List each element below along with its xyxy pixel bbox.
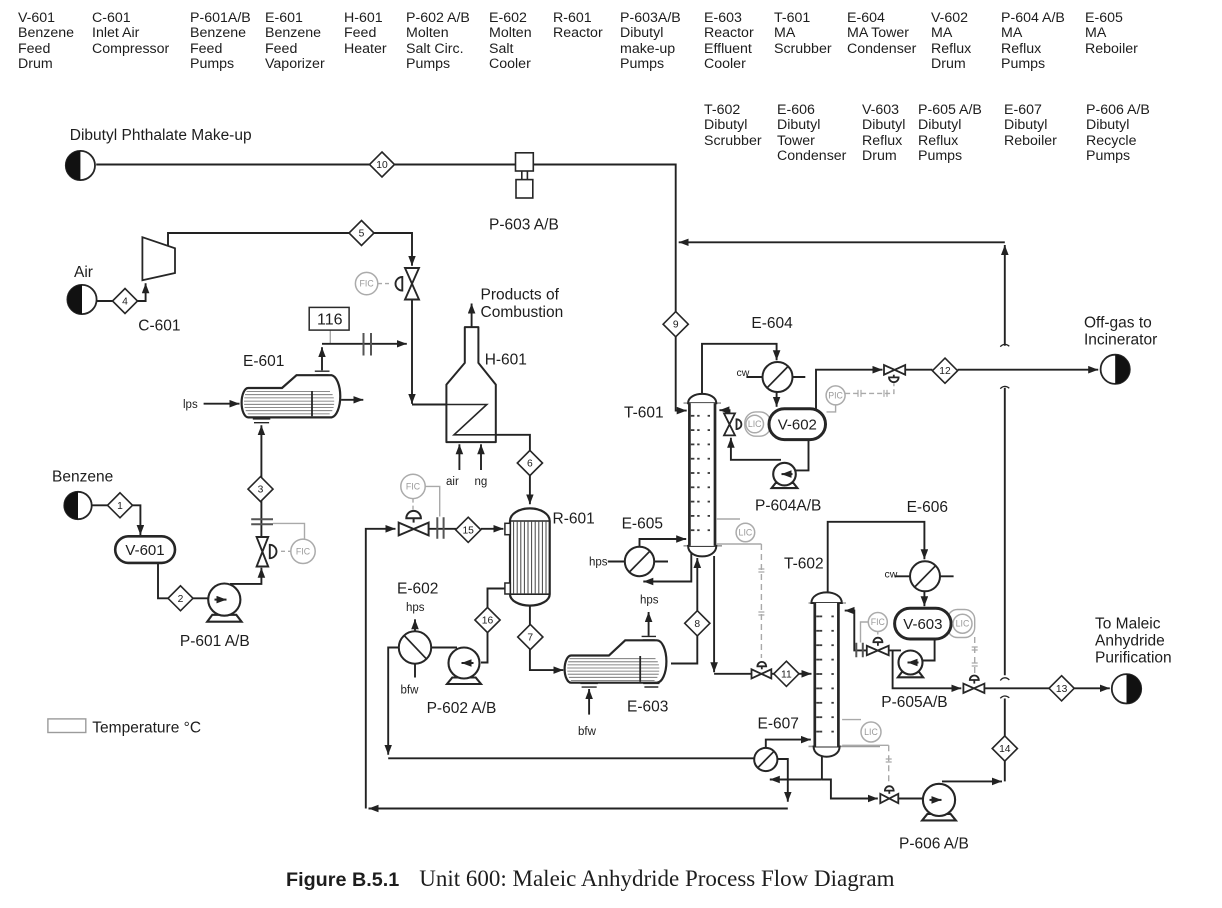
- svg-text:11: 11: [781, 669, 792, 680]
- svg-text:FIC: FIC: [406, 481, 421, 491]
- svg-text:LIC: LIC: [739, 528, 753, 538]
- svg-text:Temperature °C: Temperature °C: [92, 720, 201, 737]
- svg-text:116: 116: [317, 312, 343, 329]
- svg-text:LIC: LIC: [864, 727, 878, 737]
- svg-text:12: 12: [939, 366, 951, 377]
- svg-text:To Maleic: To Maleic: [1095, 616, 1161, 633]
- svg-text:P-601 A/B: P-601 A/B: [180, 633, 250, 650]
- svg-text:R-601: R-601: [553, 511, 595, 528]
- svg-text:E-606: E-606: [907, 499, 948, 516]
- svg-text:P-602 A/B: P-602 A/B: [427, 700, 497, 717]
- svg-text:7: 7: [527, 633, 533, 644]
- svg-text:P-606 A/B: P-606 A/B: [899, 836, 969, 853]
- svg-text:6: 6: [527, 459, 533, 470]
- svg-text:cw: cw: [737, 367, 750, 379]
- svg-text:lps: lps: [183, 399, 198, 411]
- svg-text:PIC: PIC: [828, 390, 843, 400]
- svg-text:8: 8: [694, 619, 700, 630]
- svg-text:10: 10: [376, 160, 388, 171]
- svg-text:ng: ng: [475, 476, 488, 488]
- svg-text:4: 4: [122, 297, 128, 308]
- svg-text:P-605A/B: P-605A/B: [881, 694, 947, 711]
- svg-text:LIC: LIC: [956, 619, 970, 629]
- svg-text:P-604A/B: P-604A/B: [755, 498, 821, 515]
- svg-text:T-601: T-601: [624, 405, 664, 422]
- svg-text:Purification: Purification: [1095, 650, 1172, 667]
- svg-text:hps: hps: [406, 602, 425, 614]
- svg-text:Combustion: Combustion: [481, 304, 564, 321]
- svg-text:C-601: C-601: [138, 318, 180, 335]
- svg-text:E-605: E-605: [622, 516, 663, 533]
- svg-text:FIC: FIC: [360, 279, 375, 289]
- svg-text:5: 5: [359, 229, 365, 240]
- svg-text:FIC: FIC: [871, 617, 886, 627]
- svg-text:V-603: V-603: [903, 616, 942, 633]
- svg-text:E-603: E-603: [627, 699, 668, 716]
- svg-text:E-602: E-602: [397, 581, 438, 598]
- svg-text:T-602: T-602: [784, 556, 824, 573]
- svg-text:E-604: E-604: [751, 315, 793, 332]
- svg-text:Benzene: Benzene: [52, 469, 113, 486]
- svg-text:Off-gas to: Off-gas to: [1084, 315, 1152, 332]
- svg-text:LIC: LIC: [748, 419, 762, 429]
- svg-text:14: 14: [999, 744, 1011, 755]
- svg-text:3: 3: [258, 485, 264, 496]
- svg-text:H-601: H-601: [485, 352, 527, 369]
- svg-text:16: 16: [482, 616, 494, 627]
- svg-text:13: 13: [1056, 684, 1068, 695]
- svg-text:E-601: E-601: [243, 353, 284, 370]
- svg-text:cw: cw: [885, 569, 898, 581]
- svg-text:air: air: [446, 476, 459, 488]
- svg-text:Air: Air: [74, 264, 93, 281]
- svg-text:9: 9: [673, 320, 679, 331]
- svg-text:V-602: V-602: [778, 416, 817, 433]
- svg-text:P-603 A/B: P-603 A/B: [489, 217, 559, 234]
- svg-text:Dibutyl Phthalate Make-up: Dibutyl Phthalate Make-up: [70, 127, 252, 144]
- svg-text:V-601: V-601: [125, 542, 164, 559]
- svg-text:2: 2: [178, 594, 184, 605]
- svg-text:E-607: E-607: [758, 716, 799, 733]
- svg-text:hps: hps: [589, 557, 608, 569]
- svg-text:hps: hps: [640, 595, 659, 607]
- svg-text:Anhydride: Anhydride: [1095, 633, 1165, 650]
- svg-text:Incinerator: Incinerator: [1084, 332, 1157, 349]
- svg-text:FIC: FIC: [296, 546, 311, 556]
- svg-text:1: 1: [117, 501, 123, 512]
- svg-text:bfw: bfw: [578, 726, 597, 738]
- svg-text:bfw: bfw: [401, 685, 420, 697]
- svg-text:Products of: Products of: [481, 287, 560, 304]
- svg-text:15: 15: [462, 525, 474, 536]
